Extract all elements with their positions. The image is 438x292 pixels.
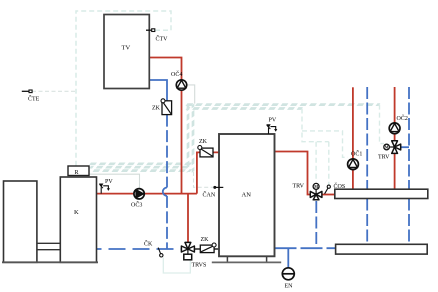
svg-text:ZK: ZK — [152, 106, 161, 112]
valve TRV1 three-way with actuator — [293, 183, 322, 199]
svg-text:EN: EN — [285, 284, 294, 290]
control line CK to TRVS actuator — [163, 258, 190, 274]
floor line under boiler — [2, 261, 98, 263]
control line to TRV2 actuator — [380, 105, 385, 144]
control bus band lower (from R to right) — [85, 164, 195, 171]
blue pipe return riser A — [366, 87, 368, 244]
blue pipe down to bottom return — [166, 196, 168, 249]
red pipe TRV1 to radiator1 — [323, 194, 335, 196]
black pipe TRVS to ZK to AN — [194, 248, 219, 250]
red pipe TV supply to OC4 — [149, 58, 181, 80]
red pipe TRV2 to radiator1 — [394, 154, 396, 190]
svg-text:ČAN: ČAN — [203, 191, 216, 199]
sensor COS — [325, 182, 346, 194]
sensor CK — [144, 240, 163, 258]
blue pipe return riser B — [408, 87, 410, 244]
control bus vertical from ctv loop to regulator — [76, 11, 171, 166]
tank AN — [219, 134, 275, 256]
control link CTE faint — [32, 90, 76, 92]
svg-text:OČ3: OČ3 — [131, 201, 142, 209]
svg-text:AN: AN — [242, 192, 252, 199]
svg-text:ČOS: ČOS — [334, 182, 346, 190]
blue pipe boiler return bottom — [97, 248, 182, 250]
svg-text:M: M — [385, 146, 389, 150]
tank AN legs — [227, 256, 266, 262]
svg-text:OČ2: OČ2 — [397, 114, 408, 122]
svg-text:OČ4: OČ4 — [171, 70, 182, 78]
pump OC4 — [171, 70, 187, 90]
regulator R box — [68, 166, 89, 176]
svg-text:PV: PV — [269, 118, 277, 124]
sensor CAN — [203, 186, 224, 199]
svg-text:ČK: ČK — [144, 240, 153, 248]
red pipe OC2 riser to TRV2 — [394, 87, 396, 141]
svg-text:R: R — [75, 170, 79, 176]
control line to COS sensor — [328, 142, 330, 186]
red pipe riser to ZK-AN — [197, 152, 220, 193]
check valve ZK to AN top — [198, 139, 213, 157]
red pipe drop to TRVS — [187, 194, 189, 243]
red pipe boiler supply main — [97, 193, 197, 195]
svg-text:ČTV: ČTV — [156, 35, 169, 43]
control line drop to TRV1 group — [302, 109, 329, 142]
tank TV — [104, 15, 149, 89]
feeder screw housing — [37, 243, 60, 249]
control line to TRV1 actuator — [315, 142, 317, 182]
svg-text:TRV: TRV — [293, 184, 305, 190]
svg-text:M: M — [314, 184, 318, 189]
radiator 1 — [335, 189, 428, 198]
blue pipe TV return to ZK — [149, 80, 167, 101]
red pipe OC4 down to boiler main — [181, 90, 183, 193]
control link CAN faint — [194, 172, 214, 187]
svg-text:TRVS: TRVS — [192, 263, 207, 269]
sensor CTE — [22, 90, 40, 103]
sensor CTV — [146, 29, 168, 43]
control line to OC1 pump — [302, 131, 348, 157]
control link OC3 pump faint — [89, 174, 140, 188]
blue pipe ZK down dashed — [166, 115, 168, 188]
red pipe OC1 riser — [352, 87, 354, 189]
svg-text:TRV: TRV — [378, 155, 390, 161]
expansion vessel EN — [282, 268, 294, 290]
check valve ZK on TV return — [152, 99, 172, 115]
control link OC4 pump faint — [187, 85, 195, 104]
fuel hopper — [4, 181, 37, 262]
pump OC1 — [348, 150, 363, 170]
red pipe AN to TRV1 — [275, 152, 311, 195]
svg-text:ZK: ZK — [201, 237, 210, 243]
blue pipe EN stub — [287, 248, 289, 267]
svg-text:ČTE: ČTE — [28, 95, 40, 103]
svg-text:ZK: ZK — [199, 139, 208, 145]
control bus band upper — [184, 105, 380, 109]
valve TRV2 three-way with actuator — [378, 141, 401, 161]
safety valve PV on boiler — [99, 179, 113, 194]
svg-text:PV: PV — [105, 179, 113, 185]
blue pipe hop over red — [163, 188, 167, 196]
pump OC2 — [389, 114, 408, 134]
safety valve PV on AN — [266, 118, 277, 135]
check valve ZK after TRVS — [200, 237, 216, 252]
svg-text:OČ1: OČ1 — [351, 150, 362, 158]
valve TRVS three-way mixing — [181, 242, 206, 268]
svg-text:K: K — [74, 209, 79, 216]
control bus vertical band x=188,193 — [188, 101, 193, 176]
blue pipe AN to radiator2 return — [275, 247, 336, 249]
svg-text:TV: TV — [122, 45, 131, 52]
blue pipe TRV1 drop — [315, 201, 317, 248]
radiator 2 — [336, 244, 428, 254]
pump OC3 — [131, 189, 144, 209]
boiler K — [60, 177, 96, 262]
floor line under AN — [212, 261, 281, 263]
blue pipe TRV2 bypass — [401, 146, 409, 148]
